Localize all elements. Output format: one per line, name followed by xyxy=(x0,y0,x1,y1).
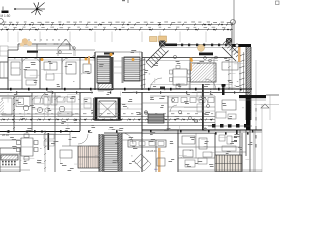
svg-text:AB 28.40: AB 28.40 xyxy=(146,149,157,153)
svg-text:M 1:50: M 1:50 xyxy=(1,14,11,18)
svg-text:28.40: 28.40 xyxy=(2,133,9,137)
svg-text:▪▪▪▪: ▪▪▪▪ xyxy=(154,168,158,171)
